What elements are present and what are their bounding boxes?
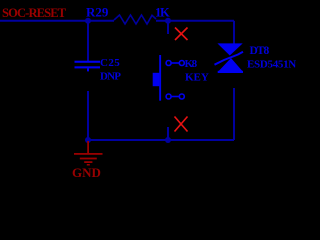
wire bottom horizontal [88,139,234,141]
switch K8 button cap [153,73,160,86]
switch top-right contact circle [179,61,184,66]
wire diode top lead vertical [233,21,235,44]
svg-text:C25: C25 [100,57,120,69]
switch K8 plunger bar [159,55,161,101]
wire switch bottom stub [167,127,169,140]
capacitor C25 top plate [75,61,101,63]
switch bottom-left contact circle [166,94,171,99]
no-ERC marker X bottom [175,117,188,132]
wire capacitor bottom vertical [87,91,89,140]
no-ERC marker X top [175,28,188,41]
svg-text:ESD5451N: ESD5451N [247,59,296,71]
svg-text:SOC-RESET: SOC-RESET [2,6,67,20]
resistor R29 zigzag [114,15,156,24]
svg-text:1K: 1K [155,5,170,19]
capacitor bottom pin stub [87,68,89,71]
ground bar 3 [84,161,92,163]
wire from resistor to diode corner [156,20,234,22]
junction dot at resistor input [85,18,91,24]
svg-text:GND: GND [72,165,101,180]
TVS diode bottom bar [218,71,243,73]
wire top horizontal from net label to resistor [0,20,114,22]
capacitor C25 bottom plate [75,66,101,68]
ground bar 4 [87,164,90,166]
switch bottom-right contact circle [179,94,184,99]
wire switch top stub [167,21,169,34]
junction dot at gnd node [85,137,91,143]
ground bar 1 [74,153,103,155]
junction dot at switch bottom [165,137,171,143]
switch top contact line [171,62,179,64]
wire capacitor top vertical [87,21,89,61]
TVS diode diagonal z-bar [215,52,244,65]
svg-text:KEY: KEY [185,71,209,83]
ground bar 2 [80,158,97,160]
svg-text:DT8: DT8 [250,45,270,57]
svg-text:R29: R29 [86,4,109,19]
switch top-left contact circle [166,61,171,66]
junction dot at resistor output [165,18,171,24]
svg-text:DNP: DNP [100,71,121,83]
ground symbol lead [87,141,89,153]
TVS diode DT8 bottom triangle [218,58,243,72]
svg-text:K8: K8 [185,58,198,70]
wire diode bottom lead vertical [233,88,235,140]
switch bottom contact line [171,96,179,98]
TVS diode DT8 top triangle [217,43,242,55]
